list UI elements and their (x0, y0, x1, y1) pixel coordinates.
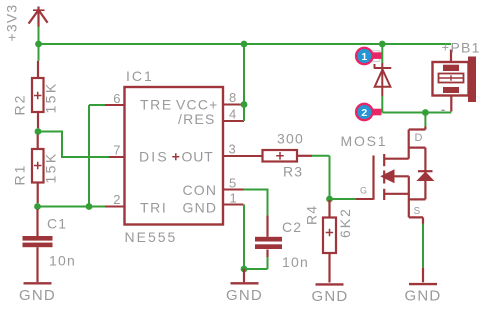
bulk line (394, 176, 409, 217)
ground GND under C2 (243, 269, 245, 282)
svg-text:3: 3 (229, 142, 236, 157)
svg-text:NE555: NE555 (125, 229, 178, 245)
ground GND under C1 (24, 282, 52, 284)
resistor R4 (323, 200, 336, 283)
wire diode branch top (381, 44, 383, 63)
body diode line (424, 148, 426, 200)
drain path (384, 127, 425, 159)
svg-text:15K: 15K (43, 81, 59, 113)
buzzer PB1 (433, 50, 469, 112)
wire pin5 to C2 (244, 190, 268, 216)
wire VCC drop to pins 8/4 (243, 44, 245, 121)
red plus of OUT (172, 153, 179, 160)
pin stubs right (223, 105, 263, 205)
body diode bar (418, 170, 433, 172)
svg-text:GND: GND (405, 288, 442, 305)
junction VCC to IC (241, 41, 248, 48)
wire VCC vertical from supply to R2 (38, 27, 40, 61)
svg-text:4: 4 (229, 107, 236, 122)
junction drain/PB1 (422, 109, 429, 116)
capacitor C1 (23, 209, 53, 282)
wire diode bottom to PB1/drain (382, 96, 451, 112)
resistor R3 (263, 150, 313, 162)
svg-text:GND: GND (226, 287, 263, 304)
svg-text:D: D (415, 132, 423, 144)
svg-text:R4: R4 (304, 205, 320, 225)
svg-text:6: 6 (113, 91, 120, 106)
svg-text:GND: GND (312, 288, 349, 305)
svg-text:1: 1 (230, 191, 237, 206)
wire TRI net (38, 206, 106, 208)
svg-text:10n: 10n (282, 254, 309, 270)
body diode triangle (416, 172, 434, 182)
junction pin8 (241, 101, 248, 108)
junction R3/R4/gate (326, 196, 333, 203)
svg-text:MOS1: MOS1 (341, 133, 388, 149)
svg-text:2: 2 (361, 107, 367, 119)
svg-text:CON: CON (183, 182, 218, 198)
svg-text:7: 7 (113, 143, 120, 158)
svg-text:300: 300 (277, 131, 304, 147)
op IC1 NE555 box (125, 87, 224, 225)
capacitor C2 (255, 215, 282, 257)
bulk arrow (380, 169, 394, 183)
junction R2/R1/DIS (35, 128, 42, 135)
junction VCC to diode (379, 41, 386, 48)
wire TRE vertical (89, 105, 105, 207)
source exit (409, 217, 423, 224)
ground GND under MOS1 (422, 268, 424, 283)
resistor R1 (32, 135, 44, 204)
svg-text:10n: 10n (49, 253, 76, 269)
gate wire (356, 198, 373, 200)
wire VCC top rail (39, 43, 452, 45)
svg-text:+3V3: +3V3 (4, 4, 20, 42)
wire OUT to gate/R4 (312, 156, 356, 199)
resistor R2 (32, 61, 44, 128)
ground GND under R4 (316, 283, 344, 285)
svg-text:R3: R3 (283, 164, 303, 180)
svg-text:+: + (442, 40, 450, 55)
junction top-left (35, 41, 42, 48)
wire drain drop (424, 113, 426, 127)
wire source to GND (422, 224, 424, 268)
svg-text:/RES: /RES (178, 111, 215, 127)
svg-text:GND: GND (183, 199, 218, 215)
svg-text:15K: 15K (43, 151, 59, 183)
label minus (441, 109, 445, 111)
svg-text:R1: R1 (12, 164, 28, 186)
svg-text:1: 1 (361, 51, 367, 63)
pin stubs left (105, 105, 125, 207)
svg-text:S: S (414, 206, 421, 217)
body diode link top (409, 147, 426, 149)
junction R1/C1/TRI (34, 203, 41, 210)
svg-text:C1: C1 (47, 216, 67, 232)
diode anode link (409, 198, 426, 200)
wire DIS net (38, 132, 109, 158)
svg-text:2: 2 (113, 192, 120, 207)
svg-text:TRI: TRI (140, 199, 167, 215)
svg-text:6K2: 6K2 (337, 207, 353, 238)
svg-text:5: 5 (229, 176, 236, 191)
junction TRE/TRI (86, 203, 93, 210)
source tap (384, 193, 409, 195)
node 1 marker (355, 47, 382, 66)
svg-text:R2: R2 (12, 94, 28, 116)
channel segments (383, 154, 385, 166)
supply +3V3 arrow symbol (29, 7, 48, 27)
svg-text:IC1: IC1 (126, 68, 154, 84)
svg-text:OUT: OUT (182, 149, 214, 165)
svg-text:C2: C2 (282, 219, 302, 235)
svg-text:8: 8 (229, 90, 236, 105)
svg-text:TRE: TRE (140, 97, 173, 113)
gate bar (372, 156, 374, 200)
svg-text:G: G (360, 186, 367, 196)
svg-text:PB1: PB1 (451, 40, 481, 56)
svg-text:GND: GND (19, 287, 56, 304)
node 2 marker (355, 103, 382, 122)
wire pin1 down and C2 bottom (244, 205, 268, 270)
svg-text:DIS: DIS (139, 149, 169, 165)
junction pin1/C2/GND (241, 266, 248, 273)
diode D1 zener (374, 63, 392, 96)
